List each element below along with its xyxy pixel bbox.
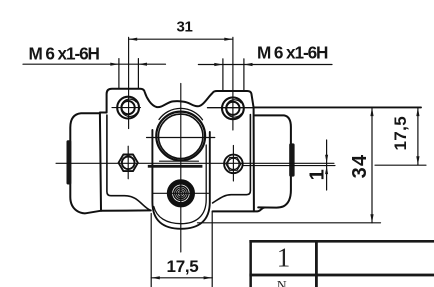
- centerline bore vertical: [180, 84, 182, 253]
- table top border: [249, 240, 434, 243]
- left side hex hole: [119, 155, 138, 172]
- dim 17.5 bottom arrow left: [151, 276, 160, 279]
- dim 17.5 right line: [417, 108, 419, 165]
- left cylinder outline: [70, 113, 101, 213]
- centerline lower companion left segment: [243, 165, 336, 167]
- dim M6 left ext lines: [119, 59, 138, 89]
- centerline right hole column: [232, 37, 234, 130]
- dim 34 arrow top: [370, 108, 373, 117]
- centerline lower companion right segment: [375, 164, 426, 166]
- dim 17.5 right arrow top: [416, 108, 419, 117]
- face edge dark bar under bore: [148, 165, 203, 168]
- dim 31 line: [129, 38, 233, 40]
- dim 31 arrow right: [224, 38, 233, 41]
- centerline left hole horizontal: [112, 107, 141, 109]
- flange outer outline: [100, 89, 254, 212]
- flange bottom edge right: [213, 208, 266, 212]
- dim 17.5 bottom line: [151, 277, 212, 279]
- stadium boss inner line: [154, 145, 206, 224]
- big bore inner circle: [159, 114, 203, 158]
- svg-text:31: 31: [176, 19, 192, 36]
- left boot retaining bar: [67, 140, 72, 184]
- centerline main horizontal: [56, 162, 334, 164]
- stadium boss outer outline: [152, 130, 209, 229]
- dim M6 left leader: [23, 63, 166, 65]
- left threaded hole M6: [117, 97, 139, 119]
- dim 34 arrow bottom: [370, 214, 373, 223]
- right boot retaining bar: [289, 143, 294, 176]
- dim 1 arrow down: [325, 155, 328, 163]
- right cylinder outline: [255, 115, 291, 207]
- svg-text:34: 34: [349, 154, 371, 179]
- dim M6 left arrow b: [138, 63, 147, 66]
- top extension line right: [254, 106, 421, 108]
- svg-text:1: 1: [277, 242, 291, 272]
- svg-text:17,5: 17,5: [391, 116, 410, 151]
- bottom extension line 34: [198, 222, 381, 224]
- centerline bleeder horizontal: [153, 192, 209, 194]
- centerline right hole horizontal: [208, 107, 255, 109]
- dim 31 arrow left: [129, 38, 138, 41]
- dim M6 right ext lines: [223, 59, 244, 91]
- dim 17.5 right arrow bottom: [416, 156, 419, 165]
- big bore top chamfer arc: [159, 108, 203, 119]
- dim 1 arrow up: [325, 166, 328, 174]
- dim M6 right arrow b: [244, 63, 253, 66]
- centerline left hole column: [128, 37, 130, 128]
- right side hex hole: [224, 155, 243, 174]
- svg-text:N: N: [277, 278, 287, 287]
- centerline left hex vertical: [127, 146, 129, 179]
- table left border: [249, 240, 252, 287]
- centerline bore horizontal: [147, 137, 215, 139]
- big bore outer circle: [156, 112, 205, 161]
- dim M6 left arrow a: [110, 63, 119, 66]
- svg-text:1: 1: [306, 169, 328, 180]
- dim 34 line: [371, 108, 373, 223]
- table row divider: [249, 274, 434, 277]
- table column divider: [315, 240, 318, 287]
- bleeder screw knurled ring: [170, 182, 193, 205]
- svg-text:M 6 x1-6H: M 6 x1-6H: [257, 43, 328, 63]
- svg-text:17,5: 17,5: [167, 257, 199, 276]
- flange bottom edge left: [101, 209, 151, 211]
- svg-text:M 6 x1-6H: M 6 x1-6H: [29, 43, 100, 63]
- dim M6 right leader: [198, 64, 332, 66]
- dim M6 right arrow a: [214, 63, 223, 66]
- dim 17.5 bottom arrow right: [204, 276, 213, 279]
- bleeder inner circles: [174, 186, 188, 200]
- dim 17.5 bottom ext lines: [151, 212, 212, 287]
- flange inner contour left: [107, 115, 150, 210]
- flange inner contour right: [213, 115, 251, 203]
- centerline right hex vertical: [232, 146, 234, 182]
- right threaded hole M6: [222, 97, 244, 119]
- chord line under bore: [160, 160, 199, 162]
- dim 1 vertical line: [326, 140, 328, 190]
